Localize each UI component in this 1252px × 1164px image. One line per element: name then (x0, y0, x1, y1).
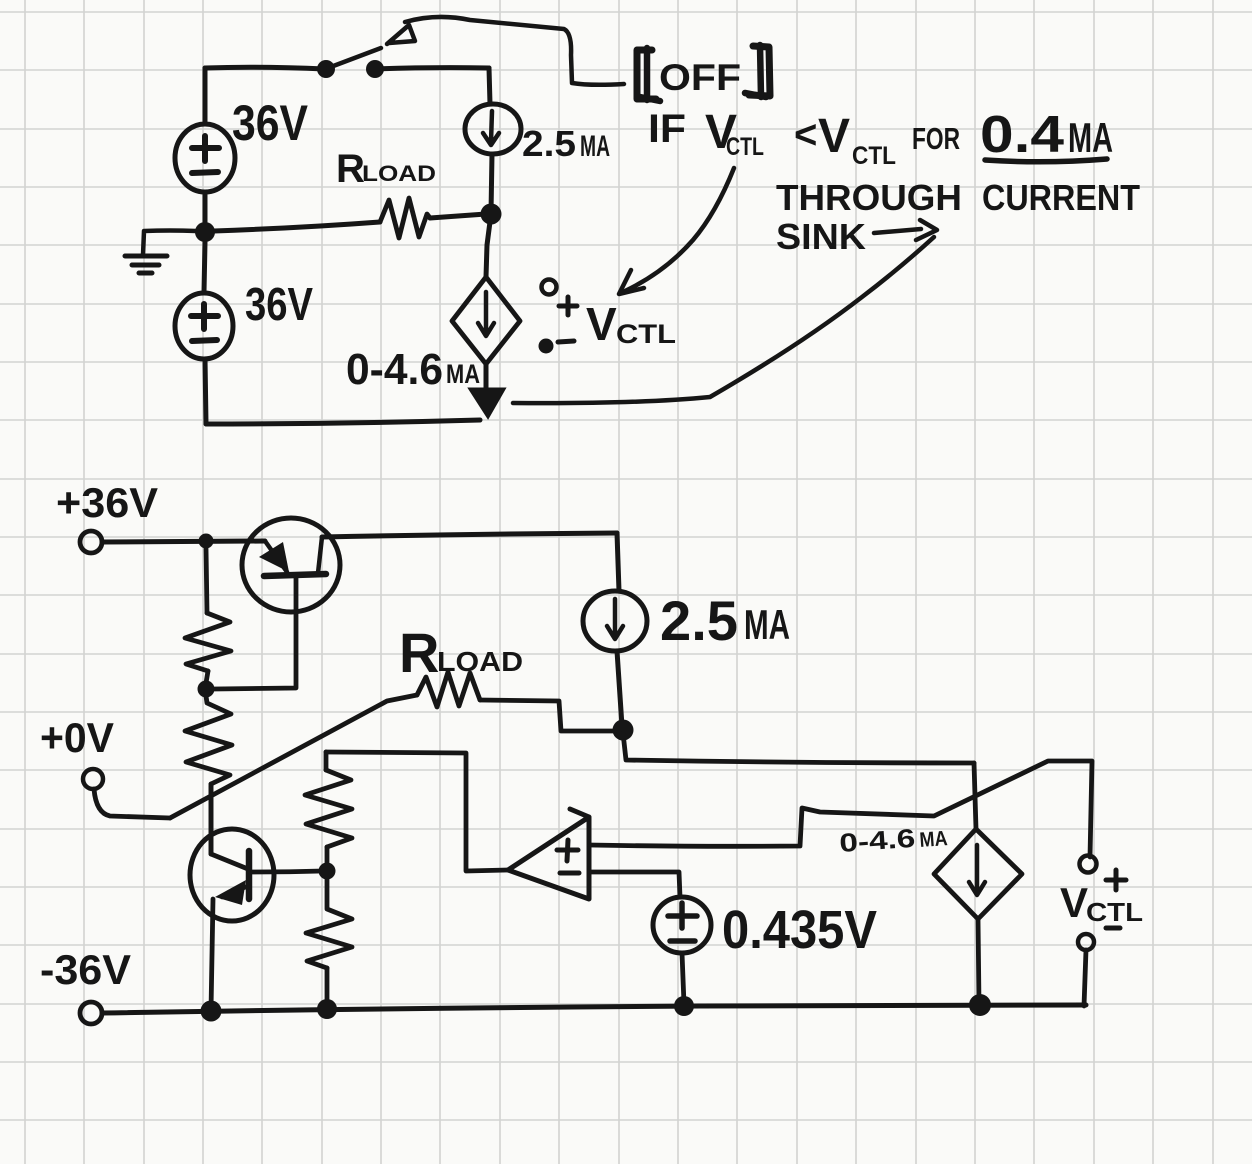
wire node A down to V2 (204, 242, 205, 292)
svg-text:LOAD: LOAD (362, 161, 436, 186)
wire G2 down to rail (978, 919, 979, 1004)
node dot R4 on rail (317, 999, 337, 1019)
wire op-amp minus input to V3 (589, 872, 680, 897)
wire rail down to I1 (489, 68, 490, 104)
svg-text:V: V (1060, 879, 1088, 926)
switch SW1 open arrowhead (387, 25, 415, 44)
plus mark VCTL (top) (559, 297, 577, 315)
voltage source V3 plus sign (668, 903, 697, 928)
op-amp minus mark (560, 871, 579, 876)
node C dot (613, 720, 634, 741)
svg-text:+36V: +36V (56, 479, 158, 526)
svg-text:36V: 36V (232, 95, 309, 151)
svg-text:0-4.6: 0-4.6 (838, 823, 916, 858)
dash arrow after SINK (874, 220, 937, 240)
resistor RLOAD (bottom) zigzag (417, 672, 480, 707)
wire node B to dependent source G1 (486, 214, 491, 277)
svg-text:CTL: CTL (726, 133, 764, 161)
annotation open arrowhead at VCTL (619, 270, 644, 294)
resistor R4 zigzag (306, 879, 352, 968)
current source I1 circle (465, 104, 521, 154)
wire R1 to node D (206, 671, 208, 683)
voltage source V1 circle 36V (175, 124, 235, 192)
dependent current source G2 diamond (934, 829, 1022, 919)
node junction dot left of switch (317, 60, 335, 78)
label [OFF] left double bracket (637, 50, 656, 99)
terminal VCTL minus circle (bottom) (1078, 934, 1094, 950)
svg-text:2.5: 2.5 (660, 589, 738, 652)
voltage source V2 minus sign (192, 340, 217, 341)
transistor Q1 emitter filled arrow (259, 542, 289, 572)
wire +36V rail from Q1 to corner (322, 533, 617, 537)
underline under 0.4MA (985, 159, 1107, 162)
transistor Q1 emitter line (265, 541, 287, 572)
node B dot (481, 204, 502, 225)
transistor Q2 base bar (246, 851, 253, 899)
voltage source V2 plus sign (191, 304, 218, 329)
wire bottom rail of top circuit (206, 420, 480, 424)
voltage source V1 minus sign (192, 172, 218, 173)
svg-text:OFF: OFF (659, 57, 741, 98)
transistor Q1 base bar (264, 574, 326, 576)
wire Q2 emitter down to rail (211, 899, 213, 1010)
current source I2 circle (583, 591, 647, 651)
wire top rail left segment (205, 67, 325, 69)
current source I1 arrow (483, 111, 499, 145)
terminal VCTL minus (top circuit, filled) (539, 339, 554, 354)
wire G1 to sink arrow (484, 364, 489, 392)
voltage source V3 minus sign (670, 938, 695, 944)
transistor Q1 circle (242, 518, 340, 612)
wire R2 to Q2 collector (209, 784, 214, 854)
voltage source V2 circle 36V (175, 293, 233, 359)
wire -36V bottom rail (102, 1005, 1086, 1013)
svg-text:0.435V: 0.435V (722, 900, 877, 960)
wire V3 down to rail (682, 953, 684, 1004)
svg-text:SINK: SINK (776, 216, 866, 257)
annotation arrow curve to VCTL (625, 168, 734, 291)
svg-text:MA: MA (919, 827, 949, 852)
current source I2 arrow (607, 599, 623, 639)
wire I2 down to node C (617, 651, 622, 726)
minus mark VCTL (bottom) (1106, 926, 1120, 931)
svg-text:MA: MA (446, 359, 480, 389)
svg-text:-36V: -36V (40, 946, 131, 993)
wire corner down into dependent source G2 (974, 763, 976, 829)
node D dot (divider junction) (198, 681, 215, 698)
terminal VCTL plus (top circuit) (542, 280, 557, 295)
terminal +0V circle (83, 769, 103, 789)
svg-text:IF: IF (648, 107, 686, 151)
wire +0V lead (94, 789, 170, 818)
wire V1 to node A (203, 192, 208, 231)
transistor Q2 collector line (211, 786, 248, 869)
resistor R3 zigzag (305, 770, 352, 847)
node junction dot right of switch (366, 60, 384, 78)
svg-text:0-4.6: 0-4.6 (346, 345, 443, 394)
wire V2 down to bottom rail (205, 359, 206, 424)
svg-text:0.4: 0.4 (980, 106, 1064, 164)
dependent current source G1 diamond (452, 277, 520, 364)
terminal VCTL plus circle (bottom) (1080, 856, 1097, 873)
wire diagonal +0V to RLOAD (170, 695, 417, 818)
svg-text:CURRENT: CURRENT (982, 177, 1140, 218)
wire down to R3 (324, 752, 329, 770)
wire VCTL minus down to rail (1084, 950, 1086, 1006)
wire rail dot to resistor R1 (206, 548, 207, 613)
plus mark VCTL (bottom) (1106, 870, 1126, 890)
terminal +36V circle (80, 531, 102, 553)
svg-text:V: V (586, 298, 617, 350)
svg-text:MA: MA (744, 601, 790, 648)
voltage source V1 plus sign (192, 136, 219, 161)
wire I1 to node (491, 154, 492, 213)
ground symbol (125, 256, 167, 273)
wire R4 to rail (325, 968, 330, 1008)
wire +36V rail to Q1 (102, 541, 265, 542)
svg-text:THROUGH: THROUGH (776, 177, 962, 218)
wire node C down and right (623, 733, 974, 763)
wire op-amp output up and over to R3 (326, 752, 508, 871)
op-amp plus mark (557, 840, 578, 861)
wire corner down to I2 (617, 533, 619, 591)
voltage source V3 0.435V circle (653, 897, 711, 953)
transistor Q1 base wire down (214, 578, 296, 689)
wire RLOAD to step (480, 700, 615, 731)
svg-text:<: < (794, 113, 817, 157)
junction dot on +36V rail (199, 534, 214, 549)
node dot V3 on rail (674, 996, 694, 1016)
wire top-left vertical (203, 68, 208, 124)
svg-text:FOR: FOR (912, 121, 960, 156)
node F dot (G2 on rail) (969, 994, 991, 1016)
svg-text:V: V (818, 110, 850, 163)
minus mark VCTL (top) (558, 341, 574, 342)
node dot Q2 emitter on rail (201, 1001, 222, 1022)
resistor R2 zigzag (185, 696, 232, 784)
node E dot (Q2 base / divider) (319, 863, 336, 880)
label [OFF] right double bracket (749, 46, 770, 96)
wire top rail right segment (375, 68, 489, 69)
terminal -36V circle (80, 1002, 102, 1024)
resistor RLOAD (top) zigzag (380, 198, 430, 238)
wire node A to ground (143, 231, 196, 256)
svg-text:MA: MA (1068, 114, 1113, 161)
transistor Q1 collector line (318, 537, 322, 573)
transistor Q2 emitter line with filled arrow (222, 886, 248, 897)
switch SW1 blade (open) (328, 48, 381, 68)
transistor Q2 base wire (250, 871, 322, 872)
dependent source G1 arrow (478, 292, 494, 336)
wire op-amp plus input to VCTL plus (589, 761, 1092, 857)
op-amp U1 triangle (508, 809, 589, 899)
svg-text:CTL: CTL (852, 142, 896, 170)
dependent source G2 arrow (969, 845, 985, 895)
wire RLOAD to node B (430, 214, 486, 218)
svg-text:MA: MA (580, 130, 610, 163)
wire node A to RLOAD (214, 222, 380, 231)
wire annotation leader from switch to OFF label (405, 17, 624, 85)
svg-text:+0V: +0V (40, 714, 114, 761)
wire R3 to node E (325, 847, 330, 863)
svg-text:R: R (399, 621, 439, 684)
transistor Q2 circle (190, 829, 274, 921)
node A dot (between sources) (195, 222, 215, 242)
filled arrowhead into bottom wire (current sink) (470, 389, 504, 417)
svg-text:CTL: CTL (1086, 897, 1143, 927)
svg-text:CTL: CTL (616, 319, 676, 349)
svg-text:2.5: 2.5 (522, 123, 576, 164)
svg-text:36V: 36V (245, 278, 313, 330)
svg-text:R: R (336, 147, 365, 191)
resistor R1 zigzag (185, 613, 231, 671)
long pointer line from SINK to sink arrow (513, 237, 934, 403)
